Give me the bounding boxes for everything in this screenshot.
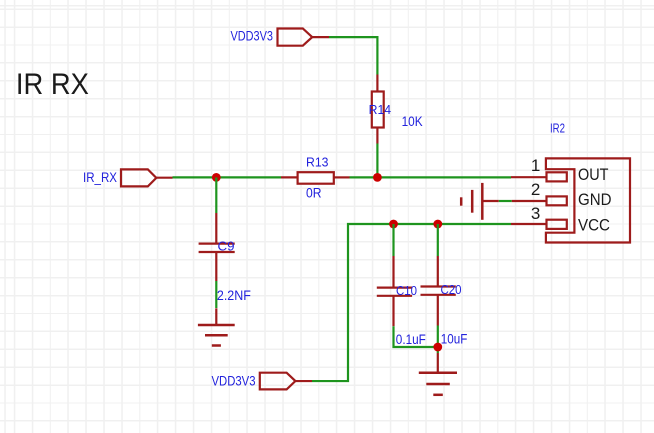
pin 3 of IR2 bbox=[511, 220, 567, 229]
svg-text:3: 3 bbox=[531, 204, 540, 223]
wire node E to C20 bbox=[437, 224, 439, 256]
svg-text:GND: GND bbox=[578, 190, 612, 209]
power port VDD3V3 (bottom) bbox=[260, 373, 312, 390]
label 2.2NF bbox=[217, 288, 251, 304]
capacitor C10 bbox=[377, 256, 412, 326]
label C20 bbox=[441, 282, 462, 297]
ground below node D bbox=[419, 353, 457, 395]
pin 1 of IR2 bbox=[511, 172, 567, 181]
pin name OUT bbox=[578, 165, 609, 184]
junction node A bbox=[212, 173, 221, 182]
svg-text:2.2NF: 2.2NF bbox=[217, 288, 251, 304]
label VDD3V3 (top) bbox=[231, 28, 274, 43]
label IR2 bbox=[550, 121, 565, 136]
label R13 bbox=[306, 155, 329, 170]
label C9 bbox=[218, 238, 235, 253]
wire C10 to node D bbox=[394, 326, 438, 347]
label 0.1uF bbox=[396, 332, 426, 348]
wire R13 to IR2 pin 1 bbox=[350, 176, 512, 178]
svg-text:C9: C9 bbox=[218, 238, 235, 253]
wire C9 to ground bbox=[215, 281, 217, 308]
junction node E bbox=[433, 220, 442, 229]
label 0R bbox=[306, 186, 322, 202]
pin 2 of IR2 bbox=[512, 196, 567, 205]
svg-text:VDD3V3: VDD3V3 bbox=[231, 28, 274, 43]
svg-text:IR RX: IR RX bbox=[16, 68, 89, 101]
svg-text:IR_RX: IR_RX bbox=[83, 170, 117, 185]
resistor R14 bbox=[372, 75, 384, 144]
pin number 1 bbox=[531, 156, 540, 175]
svg-text:0R: 0R bbox=[306, 186, 322, 202]
capacitor C20 bbox=[421, 256, 456, 326]
svg-text:2: 2 bbox=[531, 180, 540, 199]
wire C20 to node D bbox=[437, 326, 439, 354]
wire node C to C10 bbox=[392, 224, 394, 256]
pin number 3 bbox=[531, 204, 540, 223]
wire node A to C9 bbox=[215, 177, 217, 213]
svg-text:R14: R14 bbox=[369, 102, 392, 117]
port IR_RX bbox=[121, 169, 173, 186]
pin name GND bbox=[578, 190, 612, 209]
svg-text:1: 1 bbox=[531, 156, 540, 175]
component IR2 outline bbox=[546, 158, 630, 242]
pin name VCC bbox=[578, 215, 610, 234]
svg-text:C20: C20 bbox=[441, 282, 462, 297]
label IR_RX bbox=[83, 170, 117, 185]
ground below C9 bbox=[198, 308, 235, 345]
label VDD3V3 (bottom) bbox=[212, 373, 256, 388]
capacitor C9 bbox=[199, 213, 235, 281]
wire IR_RX to R13 bbox=[173, 176, 282, 178]
label 10K bbox=[402, 114, 423, 130]
pin number 2 bbox=[531, 180, 540, 199]
wire VDD3V3 bottom to VCC rail bbox=[312, 224, 511, 381]
label 10uF bbox=[441, 331, 468, 347]
wire VDD3V3 top to R14 bbox=[329, 37, 377, 74]
power port VDD3V3 (top) bbox=[278, 29, 330, 46]
svg-text:C10: C10 bbox=[396, 283, 417, 298]
svg-text:OUT: OUT bbox=[578, 165, 609, 184]
title IR RX bbox=[16, 68, 89, 101]
junction node D bbox=[433, 343, 442, 352]
label C10 bbox=[396, 283, 417, 298]
svg-text:R13: R13 bbox=[306, 155, 329, 170]
svg-text:IR2: IR2 bbox=[550, 121, 565, 136]
wire ground to IR2 pin 2 bbox=[499, 200, 512, 202]
junction node B bbox=[373, 173, 382, 182]
label R14 bbox=[369, 102, 392, 117]
svg-text:10uF: 10uF bbox=[441, 331, 468, 347]
ground at IR2 pin 2 bbox=[461, 183, 499, 220]
svg-text:VCC: VCC bbox=[578, 215, 610, 234]
junction node C bbox=[389, 220, 398, 229]
wire R14 to node B bbox=[376, 144, 378, 178]
svg-text:VDD3V3: VDD3V3 bbox=[212, 373, 256, 388]
resistor R13 bbox=[281, 172, 350, 184]
svg-text:0.1uF: 0.1uF bbox=[396, 332, 426, 348]
svg-text:10K: 10K bbox=[402, 114, 423, 130]
